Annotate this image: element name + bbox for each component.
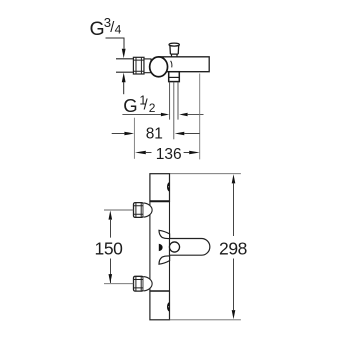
298 bottom extension line [170,319,241,321]
bottom cap of body [150,291,170,320]
body tube right edge [169,201,171,291]
bar edge through stadium [169,239,171,256]
top cap of body [150,174,170,202]
grip notch top (dark crescent) [167,182,169,192]
inlet pipe (horizontal) [116,59,134,72]
thick joint line above bottom cap [150,290,170,292]
thick joint line under top cap [150,200,170,202]
top escutcheon dome [143,203,152,217]
outlet pipe centre line [173,82,175,140]
label G3/4 [90,15,122,40]
dimension 81 [112,126,200,143]
temperature mark (black D) [159,244,163,251]
outlet pipe walls [170,82,178,120]
arrow down G3/4 [122,49,126,59]
aerator circle [169,242,179,252]
svg-text:2: 2 [149,101,156,115]
grip notch bottom (dark crescent) [167,302,169,312]
G1/2 leader left with arrow [122,114,160,116]
union nut (side view) [133,57,144,74]
bottom escutcheon dome [143,277,152,291]
upper spout leaf [159,230,170,238]
thermostat cap (circle) [150,57,168,77]
spout stadium outline [170,239,210,256]
mixer body (side) [159,57,210,72]
svg-text:150: 150 [95,239,124,259]
label G1/2 [123,94,156,116]
svg-text:4: 4 [115,22,122,36]
extension line right [199,74,201,160]
connector between nut and cartridge [144,59,151,73]
dimension 150 [95,210,124,283]
bottom union nut (front view) [134,276,144,291]
extension line left (wall plane) [133,118,135,159]
svg-text:G: G [123,95,137,116]
dimension 298 [219,174,247,319]
298 top extension line [170,173,241,175]
svg-text:298: 298 [219,239,247,259]
lower spout leaf [159,256,170,264]
top union nut (front view) [134,203,144,218]
arrow up to pipe [122,73,126,83]
dimension 136 [135,146,200,163]
svg-text:G: G [90,18,105,40]
svg-text:136: 136 [156,146,182,163]
leader line G3/4 [106,38,125,49]
body tube left edge [149,201,151,291]
highlight arc on body [171,61,172,68]
150 extension lines [104,210,133,284]
diverter knob on top [169,43,179,57]
G1/2 right arrow [179,113,187,117]
arrow tail [123,82,125,94]
shower outlet connector below body [169,72,180,82]
svg-text:81: 81 [146,126,163,143]
